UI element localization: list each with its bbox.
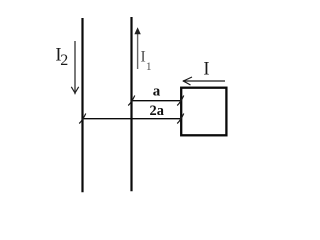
svg-text:2a: 2a	[150, 103, 164, 119]
tick at loop end of dimension 2a	[177, 114, 184, 124]
svg-text:a: a	[153, 84, 161, 100]
label I2	[55, 46, 68, 69]
current arrow I (leftward, above top side of loop)	[183, 77, 225, 85]
dimension line 2a (from wire W2 to loop)	[82, 118, 180, 120]
label I1	[140, 47, 152, 73]
wire W1 (middle vertical conductor)	[130, 17, 132, 191]
tick at W2 end of dimension 2a	[79, 114, 86, 124]
svg-text:I: I	[203, 60, 209, 80]
tick at loop end of dimension a	[177, 96, 184, 106]
dimension line a (from wire W1 to loop)	[131, 100, 180, 102]
current arrow I1 (upward)	[134, 27, 140, 69]
wire W2 (left vertical conductor)	[81, 18, 83, 192]
svg-text:2: 2	[60, 52, 68, 69]
square loop	[181, 88, 226, 136]
svg-text:1: 1	[146, 61, 152, 73]
current arrow I2 (downward)	[71, 41, 78, 94]
tick at W1 end of dimension a	[128, 96, 135, 106]
